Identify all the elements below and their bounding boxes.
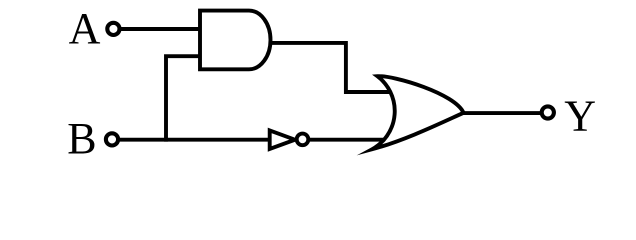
input terminal A [107,23,119,35]
svg-text:Y: Y [564,92,596,141]
wire from input B to inverter input (node B net) [110,138,272,142]
wire from input A to AND gate pin 1 [113,27,205,31]
input terminal B [106,133,118,145]
wire branch from node B up to AND gate pin 2 [166,56,205,141]
OR gate U3 [372,76,464,149]
inverter U2 bubble [297,134,309,146]
output terminal Y [542,106,554,118]
wire from OR gate output to terminal Y [458,111,542,115]
AND gate U1 [200,11,271,70]
wire from AND gate output down-jog to OR gate pin 1 [265,43,397,92]
svg-text:A: A [69,4,101,53]
wire from inverter bubble to OR gate pin 2 [301,138,393,142]
svg-text:B: B [67,114,96,163]
inverter U2 triangle [270,130,295,149]
